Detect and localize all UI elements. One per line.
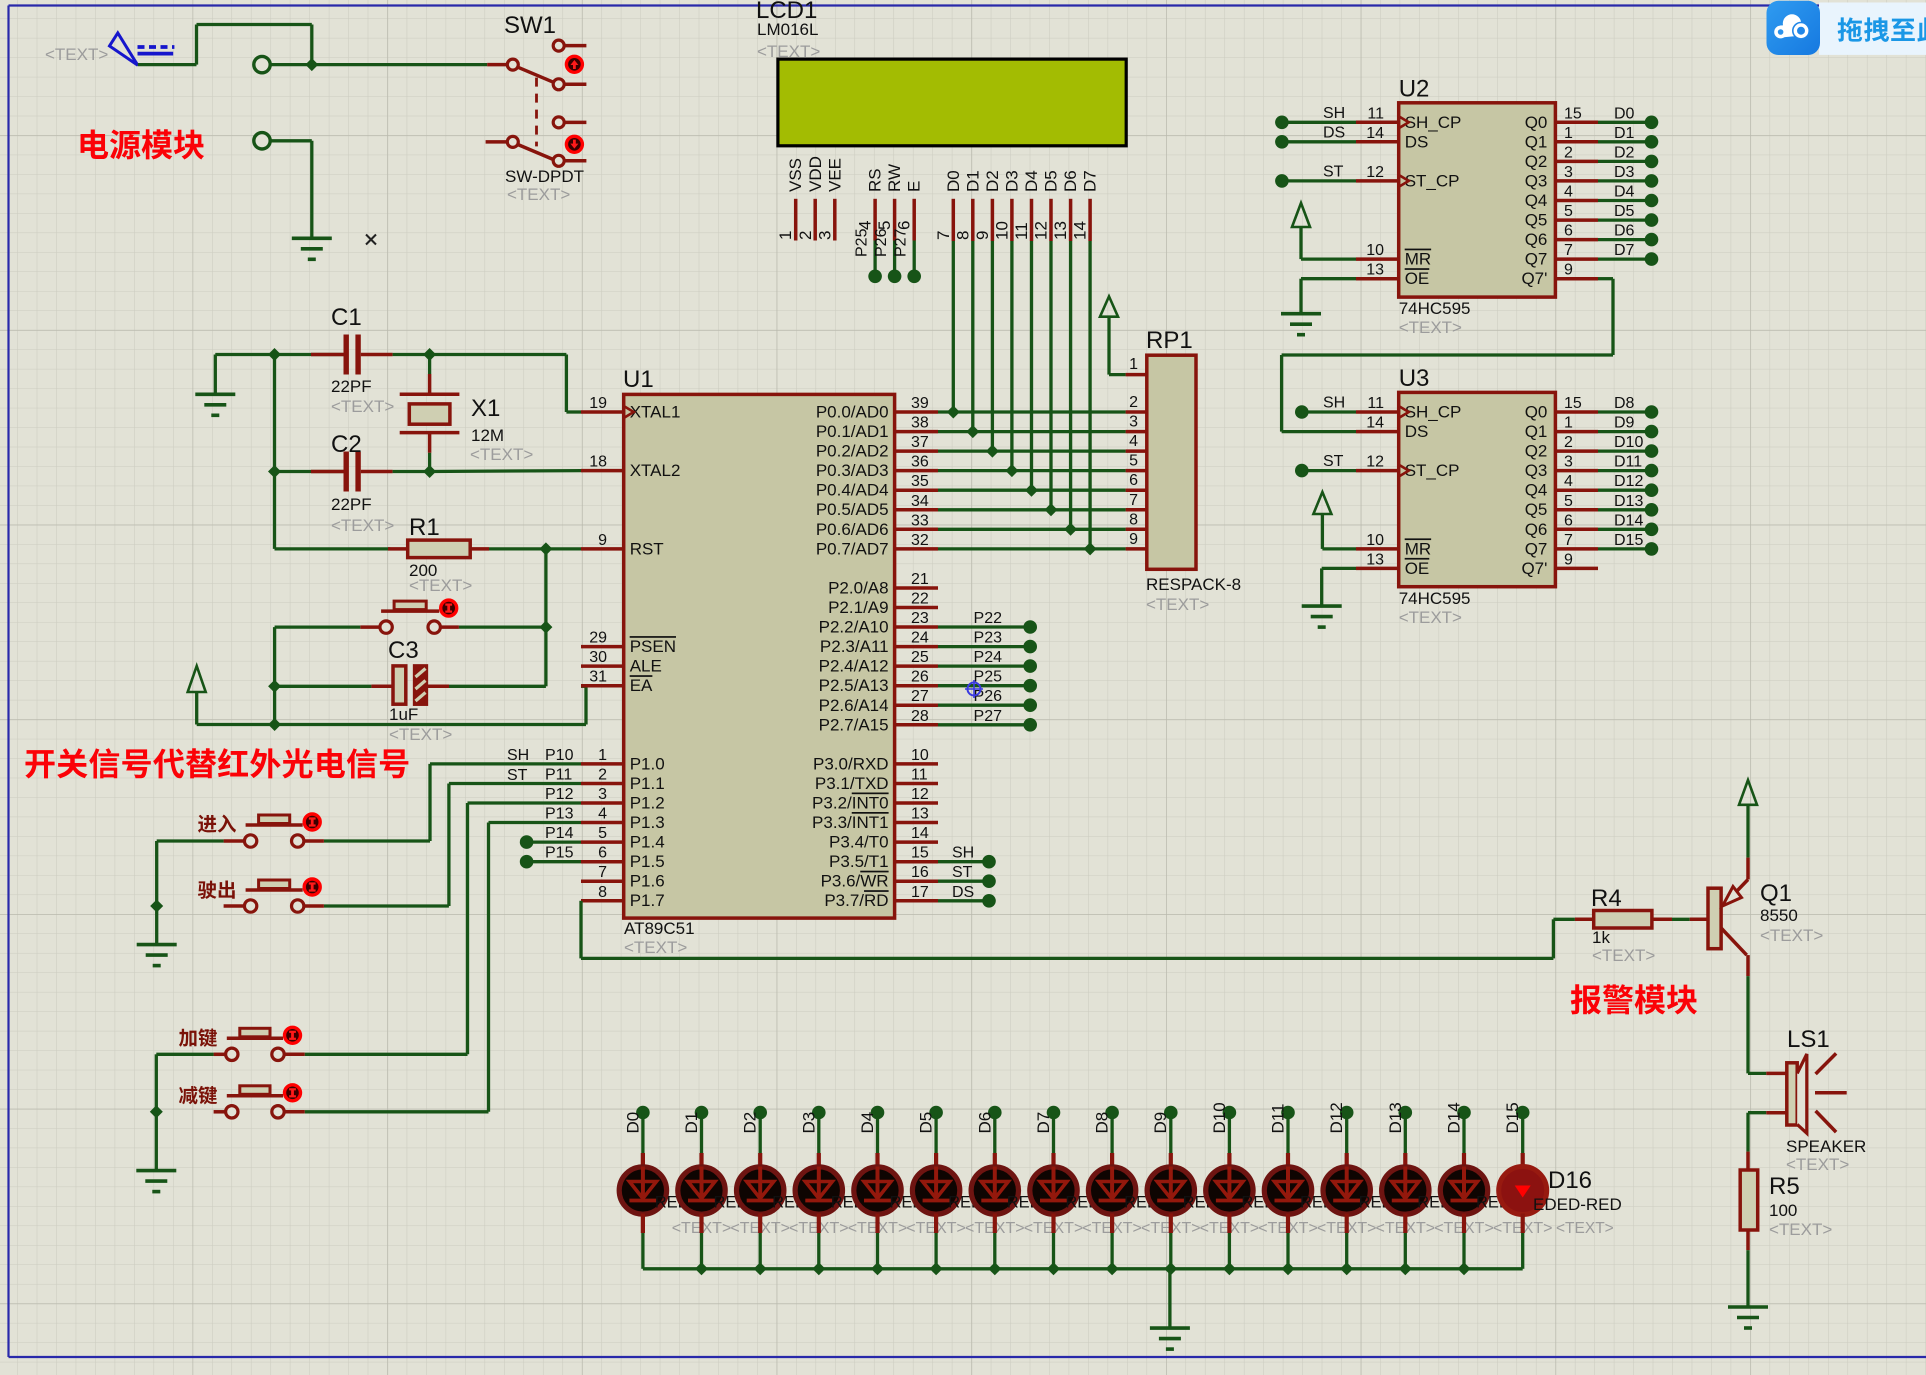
svg-text:1: 1 <box>1129 356 1138 373</box>
svg-text:D6: D6 <box>1614 223 1635 240</box>
svg-text:22PF: 22PF <box>331 495 372 514</box>
U1 pin 32 P0.7/AD7 <box>816 532 938 559</box>
wire RST node to pin9 <box>546 547 581 550</box>
label <TEXT> D11 <box>1258 1220 1318 1237</box>
U3 pin 4 Q4 <box>1525 473 1598 500</box>
svg-text:P1.0: P1.0 <box>630 754 665 773</box>
svg-text:31: 31 <box>589 669 607 686</box>
svg-text:<TEXT>: <TEXT> <box>1769 1220 1832 1239</box>
svg-text:29: 29 <box>589 630 607 647</box>
label fragment LED-RED D6 <box>1007 1194 1042 1212</box>
diode D9 (LED-RED) <box>1147 1167 1194 1215</box>
svg-text:14: 14 <box>1071 221 1090 240</box>
label R4 <box>1591 885 1622 912</box>
svg-text:D0: D0 <box>944 170 963 192</box>
RP1 designator <box>1146 327 1193 354</box>
svg-text:5: 5 <box>1129 453 1138 470</box>
wire node to SW1 pole <box>312 63 487 66</box>
U3 pin 13 OE <box>1356 551 1429 578</box>
svg-text:12: 12 <box>1032 221 1051 240</box>
wire LED D12 cathode to bus <box>1345 1214 1349 1269</box>
label X1 value 12M <box>471 426 504 445</box>
wire U2 Q2 net D2 <box>1598 144 1658 168</box>
label AT89C51 <box>624 919 695 938</box>
U2 designator <box>1399 75 1430 102</box>
svg-text:D12: D12 <box>1614 473 1643 490</box>
svg-text:P2.3/A11: P2.3/A11 <box>820 637 889 656</box>
svg-text:8: 8 <box>953 231 972 240</box>
wire minus-key left <box>214 1110 226 1114</box>
svg-text:D14: D14 <box>1445 1102 1464 1133</box>
junction LED bus D13 <box>1399 1262 1412 1275</box>
label fragment LED-RED D9 <box>1183 1194 1218 1212</box>
label plus-key (Chinese) <box>179 1028 217 1047</box>
junction LED bus D9 <box>1164 1262 1177 1275</box>
U3 pin 12 ST_CP <box>1356 454 1459 481</box>
ground U3 OE <box>1302 568 1356 627</box>
svg-text:SH: SH <box>1323 105 1345 122</box>
junction D4/P0.4 <box>1025 484 1038 497</box>
svg-text:<TEXT>: <TEXT> <box>1399 608 1462 627</box>
svg-text:19: 19 <box>589 395 607 412</box>
U1 pin 11 P3.1/TXD <box>815 767 938 794</box>
svg-text:12M: 12M <box>471 426 504 445</box>
label RESPACK-8 <box>1146 575 1241 594</box>
LCD1 pin 4 RS <box>854 168 885 283</box>
svg-text:2: 2 <box>796 231 815 240</box>
svg-text:P3.7/RD: P3.7/RD <box>824 891 888 910</box>
U2 pin 2 Q2 <box>1525 144 1598 171</box>
label enter-button (Chinese) <box>198 815 236 833</box>
net label P15 <box>545 845 574 862</box>
node C2/X1 bottom <box>423 465 436 478</box>
svg-text:D7: D7 <box>1614 242 1635 259</box>
LCD1 designator <box>756 0 817 24</box>
label <TEXT> D9 <box>1141 1220 1201 1237</box>
wire LED D7 cathode to bus <box>1051 1214 1055 1269</box>
svg-text:4: 4 <box>1564 473 1573 490</box>
resistor R4 <box>1553 911 1708 929</box>
svg-text:9: 9 <box>1129 531 1138 548</box>
svg-text:30: 30 <box>589 649 607 666</box>
U3 pin 1 Q1 <box>1525 415 1598 442</box>
LCD1 pin 1 VSS <box>776 158 805 241</box>
wire U3 Q6 net D14 <box>1598 512 1658 536</box>
diode D12 (LED-RED) <box>1323 1167 1370 1215</box>
wire reset button right <box>440 625 546 629</box>
U3 pin 11 SH_CP <box>1356 395 1461 422</box>
svg-text:<TEXT>: <TEXT> <box>331 397 394 416</box>
label fragment LED-RED D11 <box>1300 1194 1335 1212</box>
svg-text:14: 14 <box>911 825 929 842</box>
svg-text:<TEXT>: <TEXT> <box>507 185 570 204</box>
net label P12 <box>545 786 574 803</box>
U1 pin 22 P2.1/A9 <box>828 591 938 618</box>
U1 pin 38 P0.1/AD1 <box>816 415 938 442</box>
svg-text:7: 7 <box>598 864 607 881</box>
label fragment LED-RED D1 <box>713 1194 748 1212</box>
wire plus-key left <box>156 1054 225 1112</box>
svg-text:D9: D9 <box>1614 415 1635 432</box>
svg-text:10: 10 <box>992 221 1011 240</box>
svg-text:RW: RW <box>885 164 904 192</box>
LED D11 net wire and label <box>1269 1104 1295 1167</box>
U1 pin 30 ALE <box>581 649 662 676</box>
U3 pin 15 Q0 <box>1525 395 1598 422</box>
label <TEXT> D12 <box>1317 1220 1377 1237</box>
diode D13 (LED-RED) <box>1382 1167 1429 1215</box>
wire P3.5 net SH <box>938 845 996 869</box>
svg-text:P1.3: P1.3 <box>630 813 665 832</box>
label <TEXT> D2 <box>730 1220 790 1237</box>
wire P1.0 to enter-button <box>324 764 581 841</box>
wire LED D4 cathode to bus <box>875 1214 879 1269</box>
svg-text:3: 3 <box>598 786 607 803</box>
U2 pin 4 Q4 <box>1525 184 1598 211</box>
diode D5 (LED-RED) <box>912 1167 959 1215</box>
svg-text:SH: SH <box>952 845 974 862</box>
label fragment LED-RED D2 <box>772 1194 807 1212</box>
svg-text:100: 100 <box>1769 1201 1797 1220</box>
U1 pin 23 P2.2/A10 <box>819 610 938 637</box>
U1 pin 26 P2.5/A13 <box>819 669 938 696</box>
label R5 <box>1769 1173 1800 1200</box>
diode D6 (LED-RED) <box>971 1167 1018 1215</box>
svg-text:Q7: Q7 <box>1525 250 1548 269</box>
svg-text:D13: D13 <box>1614 493 1643 510</box>
node EA rail <box>268 718 281 731</box>
wire P2.2 stub net P22 <box>938 610 1037 634</box>
U2 pin 11 SH_CP <box>1356 105 1461 132</box>
power arrow U3 MR <box>1313 492 1356 549</box>
svg-text:11: 11 <box>1367 395 1384 412</box>
svg-text:P3.3/INT1: P3.3/INT1 <box>812 813 889 832</box>
svg-text:6: 6 <box>1129 472 1138 489</box>
U1 pin 18 XTAL2 <box>581 454 680 481</box>
label <TEXT> D6 <box>965 1220 1025 1237</box>
wire U3 Q5 net D13 <box>1598 493 1658 517</box>
label: alarm module (red) <box>1571 984 1697 1014</box>
RP1 pin 8 <box>1126 511 1147 529</box>
U1 pin 10 P3.0/RXD <box>813 747 938 774</box>
svg-text:D11: D11 <box>1269 1104 1288 1134</box>
svg-text:1: 1 <box>776 231 795 240</box>
U1 pin 29 PSEN <box>581 630 676 657</box>
wire net ST to U3.ST_CP <box>1295 453 1356 477</box>
label <TEXT> D4 <box>848 1220 908 1237</box>
svg-text:<TEXT>: <TEXT> <box>1146 595 1209 614</box>
LED D10 net wire and label <box>1210 1102 1236 1167</box>
svg-text:27: 27 <box>911 688 929 705</box>
resistor R5 <box>1740 1170 1758 1230</box>
svg-text:D6: D6 <box>1061 170 1080 192</box>
wire exit-button right stub <box>304 904 324 908</box>
svg-text:D1: D1 <box>1614 125 1635 142</box>
push button exit <box>244 879 320 912</box>
wire LED D2 cathode to bus <box>758 1214 762 1269</box>
label RP1 <TEXT> <box>1146 595 1209 614</box>
svg-text:12: 12 <box>911 786 929 803</box>
svg-text:P11: P11 <box>545 767 572 784</box>
svg-text:D5: D5 <box>917 1112 936 1134</box>
wire LED D14 cathode to bus <box>1462 1214 1466 1269</box>
wire P2.3 stub net P23 <box>938 630 1037 654</box>
label R1 <TEXT> <box>409 576 472 595</box>
label R1 <box>409 514 440 541</box>
svg-text:EDED-RED: EDED-RED <box>1533 1195 1622 1214</box>
wire battery to junction (staircase) <box>138 25 312 65</box>
label fragment LED-RED D12 <box>1359 1194 1394 1212</box>
label: power module (red) <box>81 129 204 159</box>
label battery <TEXT> <box>45 45 108 64</box>
svg-text:D0: D0 <box>623 1112 642 1134</box>
svg-text:D4: D4 <box>1614 184 1635 201</box>
svg-text:DS: DS <box>1323 124 1345 141</box>
svg-text:1uF: 1uF <box>389 705 418 724</box>
label R5 value 100 <box>1769 1201 1797 1220</box>
svg-text:37: 37 <box>911 434 929 451</box>
wire LED D15 cathode to bus <box>1521 1214 1525 1269</box>
label LCD1 <TEXT> <box>757 42 820 61</box>
wire Q1 collector to speaker <box>1748 976 1766 1073</box>
U2 pin 5 Q5 <box>1525 203 1598 230</box>
diode D10 (LED-RED) <box>1206 1167 1253 1215</box>
RP1 pin 5 <box>1126 453 1147 471</box>
label C1 <TEXT> <box>331 397 394 416</box>
svg-text:P1.4: P1.4 <box>630 833 665 852</box>
svg-text:RESPACK-8: RESPACK-8 <box>1146 575 1241 594</box>
wire P1.1 to exit-button <box>324 784 581 907</box>
wire P1.3 to minus-button <box>305 823 581 1112</box>
label fragment LED-RED D10 <box>1241 1194 1276 1212</box>
svg-text:P0.4/AD4: P0.4/AD4 <box>816 481 889 500</box>
U1 pin 16 P3.6/WR <box>821 864 938 891</box>
svg-text:P2.7/A15: P2.7/A15 <box>819 715 889 734</box>
net label P10 <box>545 747 574 764</box>
svg-text:OE: OE <box>1405 269 1430 288</box>
label X1 <TEXT> <box>470 445 533 464</box>
wire U3 Q0 net D8 <box>1598 395 1658 419</box>
LED D3 net wire and label <box>799 1106 825 1167</box>
svg-text:2: 2 <box>1564 434 1573 451</box>
wire P2.6 stub net P26 <box>938 688 1037 712</box>
svg-text:3: 3 <box>1564 164 1573 181</box>
U1 pin 7 P1.6 <box>581 864 665 891</box>
svg-text:32: 32 <box>911 532 929 549</box>
svg-text:16: 16 <box>911 864 929 881</box>
svg-text:ST_CP: ST_CP <box>1405 171 1460 190</box>
svg-text:8550: 8550 <box>1760 906 1798 925</box>
ground U2 OE <box>1281 279 1356 335</box>
resistor R1 <box>275 540 546 558</box>
LCD1 pin 13 D6 data wire <box>1051 170 1080 529</box>
capacitor C1 <box>275 335 430 375</box>
wire P1.5 stub with node <box>520 855 581 869</box>
svg-text:D13: D13 <box>1386 1102 1405 1133</box>
label C2 <TEXT> <box>331 516 394 535</box>
LCD1 pin 7 D0 data wire <box>934 170 963 412</box>
svg-text:VDD: VDD <box>806 156 825 192</box>
svg-text:SW-DPDT: SW-DPDT <box>505 167 584 186</box>
svg-text:36: 36 <box>911 454 929 471</box>
svg-text:11: 11 <box>1367 105 1384 122</box>
wire LED D10 cathode to bus <box>1227 1214 1231 1269</box>
svg-text:15: 15 <box>1564 395 1582 412</box>
svg-text:D4: D4 <box>1022 170 1041 192</box>
svg-text:3: 3 <box>1564 454 1573 471</box>
svg-text:1k: 1k <box>1592 928 1610 947</box>
label U1 <TEXT> <box>624 938 687 957</box>
U3 designator <box>1399 365 1430 392</box>
svg-text:5: 5 <box>1564 203 1573 220</box>
svg-text:P26: P26 <box>974 688 1003 705</box>
junction D0/P0.0 <box>947 406 960 419</box>
svg-text:Q5: Q5 <box>1525 211 1548 230</box>
no-connect x mark <box>366 235 376 245</box>
wire LED D0 cathode to bus <box>641 1214 645 1269</box>
svg-text:C2: C2 <box>331 431 362 458</box>
label SW1 <TEXT> <box>507 185 570 204</box>
label LED-RED (D16) <box>1533 1195 1622 1214</box>
svg-text:<TEXT>: <TEXT> <box>470 445 533 464</box>
label X1 <box>471 395 500 422</box>
svg-text:VEE: VEE <box>825 158 844 192</box>
label <TEXT> D14 <box>1434 1220 1494 1237</box>
label <TEXT> D13 <box>1376 1220 1436 1237</box>
crystal X1 <box>400 355 460 472</box>
wire U2 Q6 net D6 <box>1598 223 1658 247</box>
svg-text:P26: P26 <box>873 228 890 257</box>
svg-text:SH_CP: SH_CP <box>1405 403 1462 422</box>
label LS1 <box>1787 1026 1830 1053</box>
svg-text:11: 11 <box>911 767 928 784</box>
svg-text:P2.5/A13: P2.5/A13 <box>819 676 889 695</box>
svg-text:ALE: ALE <box>630 657 662 676</box>
wire P0.1 bus to RP1 pin 3 <box>938 430 1126 433</box>
svg-text:MR: MR <box>1405 539 1431 558</box>
svg-text:R4: R4 <box>1591 885 1622 912</box>
wire U2 Q4 net D4 <box>1598 184 1658 208</box>
svg-text:P2.0/A8: P2.0/A8 <box>828 579 889 598</box>
U3 pin 3 Q3 <box>1525 454 1598 481</box>
wire net ST to U2.ST_CP <box>1275 163 1356 187</box>
svg-text:23: 23 <box>911 610 929 627</box>
svg-text:X1: X1 <box>471 395 500 422</box>
U2 pin 6 Q6 <box>1525 223 1598 250</box>
svg-text:4: 4 <box>598 806 607 823</box>
svg-text:ST: ST <box>507 767 528 784</box>
LCD1 pin 3 VEE <box>815 158 844 241</box>
wire LED D6 cathode to bus <box>993 1214 997 1269</box>
wire exit-button left <box>224 904 245 908</box>
svg-text:5: 5 <box>1564 493 1573 510</box>
svg-text:Q2: Q2 <box>1525 442 1548 461</box>
svg-text:P23: P23 <box>974 630 1003 647</box>
U2 pin 15 Q0 <box>1525 105 1598 132</box>
svg-text:<TEXT>: <TEXT> <box>389 725 452 744</box>
svg-text:D5: D5 <box>1614 203 1635 220</box>
label fragment LED-RED D14 <box>1476 1194 1511 1212</box>
wire P1.7 to R4 <box>581 901 1553 959</box>
svg-text:Q2: Q2 <box>1525 152 1548 171</box>
U2 pin 13 OE <box>1356 262 1429 289</box>
LED D5 net wire and label <box>917 1106 943 1167</box>
svg-text:D0: D0 <box>1614 105 1635 122</box>
svg-text:RP1: RP1 <box>1146 327 1193 354</box>
label <TEXT> D8 <box>1082 1220 1142 1237</box>
junction LED bus D2 <box>754 1262 767 1275</box>
svg-text:D2: D2 <box>1614 144 1635 161</box>
transistor Q1 (PNP 8550) <box>1708 858 1748 977</box>
svg-text:D15: D15 <box>1614 532 1643 549</box>
node minus-key rail <box>150 1105 163 1118</box>
svg-text:14: 14 <box>1366 125 1384 142</box>
svg-text:D7: D7 <box>1081 170 1100 192</box>
svg-text:P0.0/AD0: P0.0/AD0 <box>816 403 889 422</box>
label C2 <box>331 431 362 458</box>
junction D5/P0.5 <box>1045 503 1058 516</box>
U2 pin 7 Q7 <box>1525 242 1598 269</box>
label fragment LED-RED D7 <box>1065 1194 1100 1212</box>
U1 pin 13 P3.3/INT1 <box>812 806 938 833</box>
wire net DS to U2.DS <box>1275 124 1356 148</box>
U2 pin 12 ST_CP <box>1356 164 1459 191</box>
svg-text:3: 3 <box>815 231 834 240</box>
svg-text:OE: OE <box>1405 559 1430 578</box>
svg-text:Q0: Q0 <box>1525 113 1548 132</box>
svg-text:P3.1/TXD: P3.1/TXD <box>815 774 889 793</box>
svg-text:C3: C3 <box>388 637 419 664</box>
svg-text:SPEAKER: SPEAKER <box>1786 1137 1866 1156</box>
node C2 left rail <box>268 465 281 478</box>
node RST <box>539 542 552 555</box>
svg-text:38: 38 <box>911 415 929 432</box>
svg-text:VSS: VSS <box>786 158 805 192</box>
svg-text:D14: D14 <box>1614 512 1643 529</box>
svg-text:P1.1: P1.1 <box>630 774 665 793</box>
svg-text:ST: ST <box>1323 453 1344 470</box>
wire U2 Q7 net D7 <box>1598 242 1658 266</box>
junction LED bus D14 <box>1458 1262 1471 1275</box>
label Q1 <box>1760 880 1792 907</box>
LED D1 net wire and label <box>682 1106 708 1167</box>
RP1 pin 3 <box>1126 414 1147 432</box>
label <TEXT> (D16) <box>1556 1220 1614 1237</box>
svg-text:8: 8 <box>1129 511 1138 528</box>
LCD1 pin 14 D7 data wire <box>1071 170 1100 549</box>
svg-text:24: 24 <box>911 630 929 647</box>
label R1 value 200 <box>409 561 437 580</box>
U1 pin 3 P1.2 <box>581 786 665 813</box>
LCD1 pin 5 RW <box>873 164 904 283</box>
svg-text:P0.5/AD5: P0.5/AD5 <box>816 500 889 519</box>
svg-text:P0.1/AD1: P0.1/AD1 <box>816 422 889 441</box>
wire U2 Q5 net D5 <box>1598 203 1658 227</box>
LED D0 net wire and label <box>623 1106 649 1167</box>
svg-text:P1.7: P1.7 <box>630 891 665 910</box>
label C3 value 1uF <box>389 705 418 724</box>
svg-text:13: 13 <box>1051 221 1070 240</box>
svg-text:14: 14 <box>1366 415 1384 432</box>
label SPEAKER <box>1786 1137 1866 1156</box>
svg-text:P0.2/AD2: P0.2/AD2 <box>816 442 889 461</box>
U1 pin 1 P1.0 <box>581 747 665 774</box>
terminal T1 (upper connector) <box>254 56 270 72</box>
speaker LS1 <box>1748 1053 1847 1133</box>
diode D2 (LED-RED) <box>737 1167 784 1215</box>
U1 pin 21 P2.0/A8 <box>828 571 938 598</box>
net label P14 <box>545 825 574 842</box>
